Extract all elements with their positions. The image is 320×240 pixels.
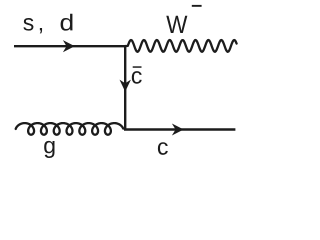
label W (166, 16, 187, 33)
label c (158, 142, 168, 155)
arrow on c line (173, 124, 183, 135)
label comma (40, 28, 42, 33)
arrow on s/d line (64, 41, 74, 52)
overbar of cbar (133, 66, 142, 68)
label s (23, 18, 33, 31)
gluon curly line (16, 123, 123, 135)
arrow on cbar line (down) (120, 80, 130, 91)
wire: incoming s/d quark line (14, 45, 126, 47)
label g (44, 141, 54, 158)
superscript minus of W (192, 5, 202, 7)
Feynman diagram: s/d quark + gluon -> c quark + W- (internal cbar) (0, 0, 249, 170)
boson W- wavy line (124, 40, 236, 52)
label d (61, 14, 73, 31)
wire: outgoing c quark line (124, 128, 235, 130)
wire: internal cbar line (vertical) (124, 46, 126, 129)
label cbar (132, 71, 142, 84)
